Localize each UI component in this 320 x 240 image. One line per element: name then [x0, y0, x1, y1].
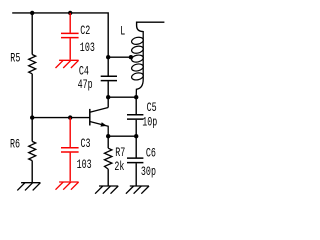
inductor L right side line: [142, 31, 144, 80]
label C6: [146, 147, 156, 161]
label C3: [81, 138, 91, 152]
resistor R7: [105, 148, 112, 169]
capacitor C6 lead to ground: [135, 163, 137, 186]
capacitor C6 lead from emitter node: [135, 136, 137, 157]
ground under R6: [17, 183, 40, 191]
ground under R7: [95, 186, 118, 194]
wire base rail: [32, 117, 90, 119]
svg-text:2k: 2k: [114, 161, 124, 175]
svg-text:C3: C3: [81, 138, 91, 152]
node H junction dot collector node right: [134, 95, 138, 99]
svg-text:C6: C6: [146, 147, 156, 161]
capacitor C5 lead from collector node: [135, 97, 137, 114]
node C junction dot left rail / base rail: [30, 115, 34, 119]
value label 103 of C3: [77, 159, 92, 173]
wire emitter node down to R7: [107, 136, 109, 148]
capacitor C5 lead to emitter node: [135, 120, 137, 136]
resistor R6: [29, 141, 36, 160]
node E junction dot tap on right rail: [106, 55, 110, 59]
wire collector stub to node: [107, 97, 109, 107]
capacitor C3 lead to ground: [69, 153, 71, 182]
node J junction dot emitter node right: [134, 134, 138, 138]
capacitor C3 (red) lead from base rail: [69, 118, 71, 148]
value label 30p of C6: [141, 166, 156, 180]
value label 10p of C5: [142, 116, 157, 130]
resistor R5: [29, 55, 36, 74]
capacitor C6 plates: [127, 158, 143, 163]
capacitor C2 (red) lead from top wire: [69, 13, 71, 33]
ground under C6: [126, 186, 149, 194]
svg-text:30p: 30p: [141, 166, 156, 180]
value label 103 of C2: [80, 42, 95, 56]
node A junction dot top wire / left rail: [30, 11, 34, 15]
wire left rail middle segment: [31, 74, 33, 142]
transistor Q1 emitter lead: [90, 122, 108, 137]
label R7: [115, 147, 125, 161]
label C5: [147, 102, 157, 116]
node F junction dot at coil tap: [129, 55, 133, 59]
wire tap to coil: [108, 56, 131, 58]
node I junction dot emitter node left: [106, 134, 110, 138]
transistor Q1 emitter arrowhead: [101, 122, 107, 126]
capacitor C2 lead to ground: [69, 38, 71, 59]
transistor Q1 base bar: [89, 109, 91, 126]
node D junction dot base rail / C3 branch: [68, 115, 72, 119]
svg-text:C2: C2: [80, 25, 90, 39]
wire R7 to ground: [107, 169, 109, 186]
label L: [120, 25, 125, 39]
ground under C2 (red): [56, 60, 79, 68]
svg-text:10p: 10p: [142, 116, 157, 130]
value label 47p of C4: [78, 78, 93, 92]
wire R6 to ground: [31, 161, 33, 183]
label C4: [79, 65, 89, 79]
wire emitter node rail: [108, 135, 136, 137]
node B junction dot top wire / C2 branch: [68, 11, 72, 15]
wire C4 bottom to collector node: [107, 81, 109, 97]
svg-text:103: 103: [80, 42, 95, 56]
transistor Q1 collector lead: [90, 108, 108, 113]
inductor L bottom exit to collector node: [136, 80, 143, 98]
svg-text:103: 103: [77, 159, 92, 173]
svg-text:R5: R5: [10, 52, 20, 66]
label R5: [10, 52, 20, 66]
node G junction dot collector node left: [106, 95, 110, 99]
capacitor C3 plates: [61, 148, 79, 152]
svg-text:L: L: [120, 25, 125, 39]
value label 2k of R7: [114, 161, 124, 175]
capacitor C5 plates: [127, 115, 143, 119]
wire top rail from left end to right corner down to C4: [12, 13, 108, 76]
svg-text:R6: R6: [10, 138, 20, 152]
svg-text:C5: C5: [147, 102, 157, 116]
label C2: [80, 25, 90, 39]
svg-text:R7: R7: [115, 147, 125, 161]
inductor L loops: [131, 36, 144, 81]
wire top right antenna lead into coil: [137, 22, 165, 31]
ground under C3 (red): [56, 182, 79, 190]
capacitor C4 plates: [101, 76, 117, 80]
capacitor C2 plates: [61, 33, 79, 37]
svg-text:C4: C4: [79, 65, 89, 79]
wire left rail upper segment: [31, 13, 33, 55]
wire collector node rail: [108, 96, 136, 98]
label R6: [10, 138, 20, 152]
svg-text:47p: 47p: [78, 78, 93, 92]
